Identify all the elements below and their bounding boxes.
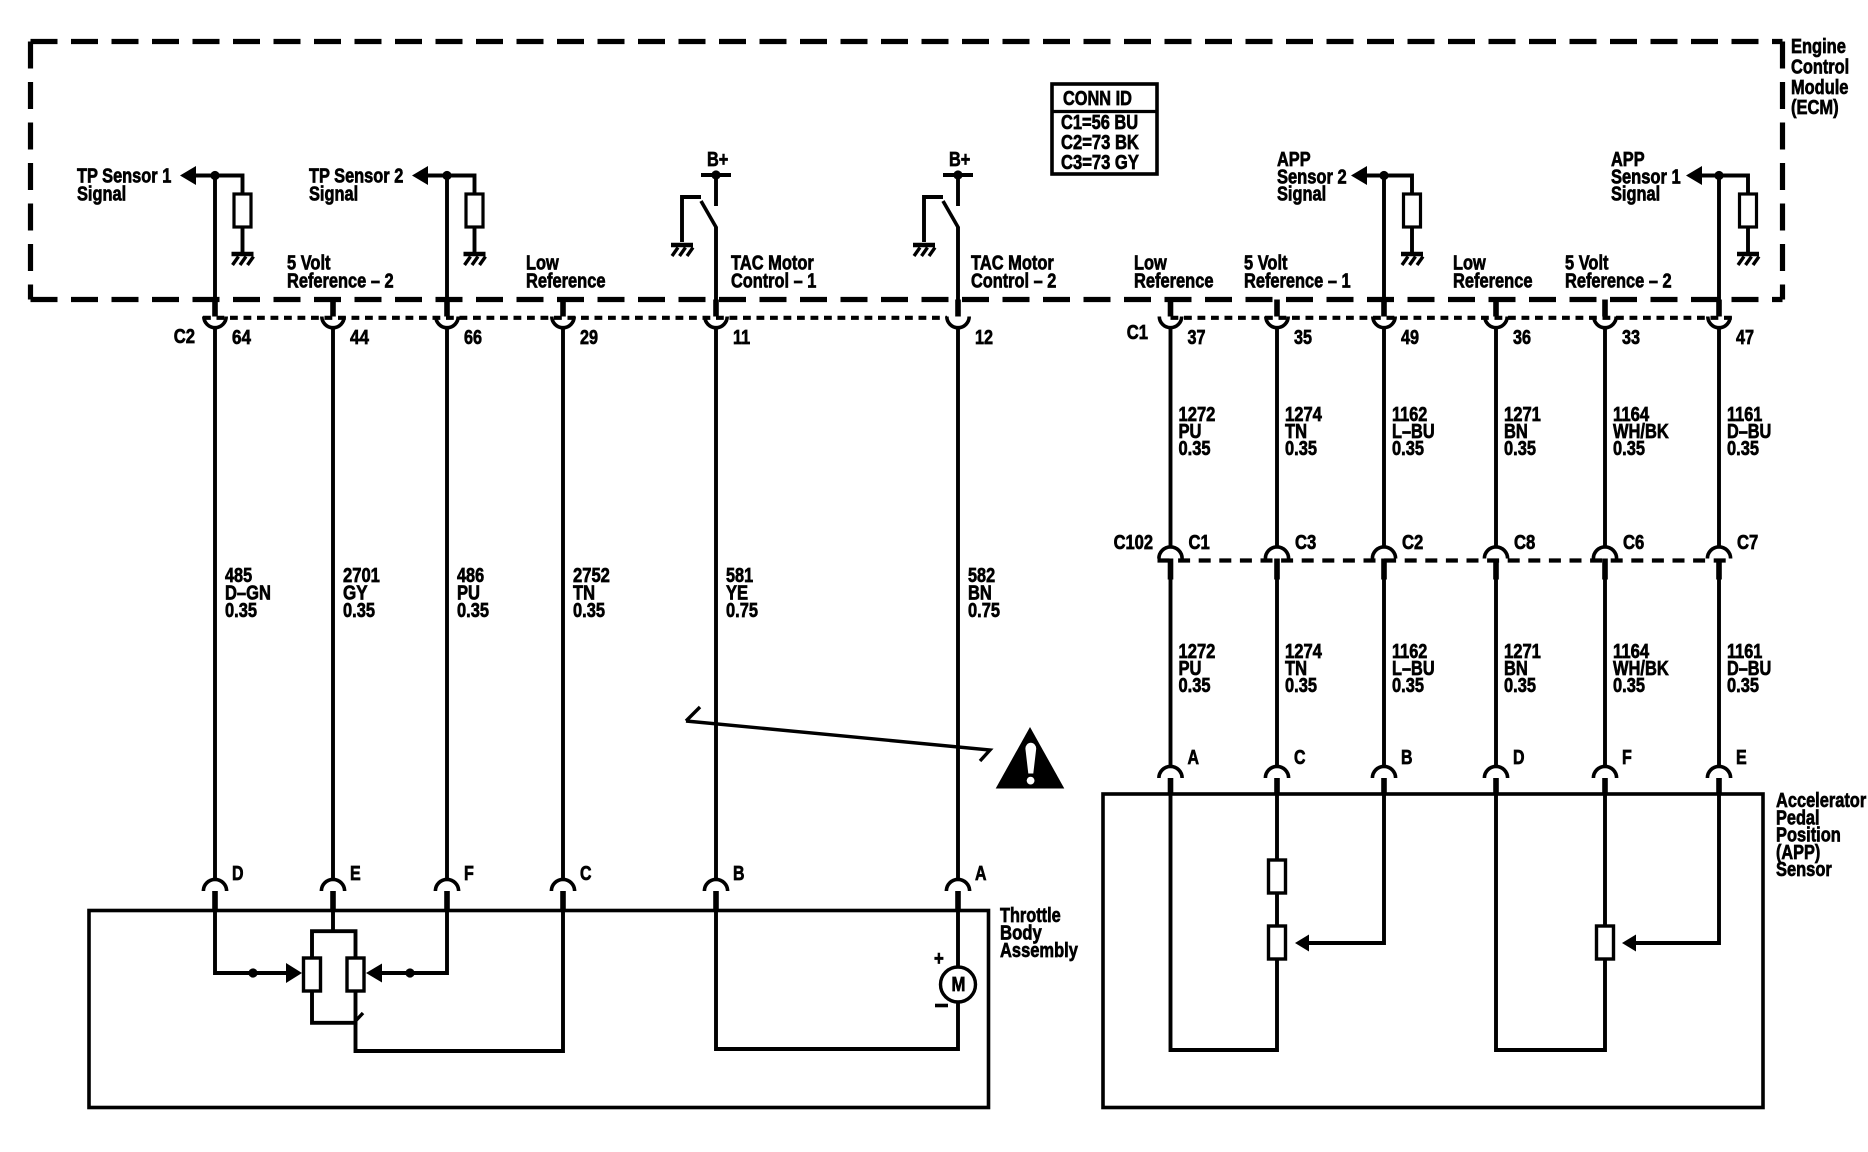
svg-text:37: 37 <box>1188 327 1206 349</box>
wire label lower 1161 D–BU 0.35 <box>1727 641 1771 697</box>
svg-text:49: 49 <box>1401 327 1419 349</box>
wire TP2 resistor to ground <box>473 227 477 253</box>
net label Low Reference (pin 37) <box>1134 253 1214 293</box>
ECM pin 44 terminal <box>322 300 370 350</box>
wire APP C lower segment <box>1275 959 1279 1052</box>
svg-text:+: + <box>934 948 944 970</box>
svg-text:0.35: 0.35 <box>1179 675 1211 697</box>
svg-text:B+: B+ <box>707 149 728 171</box>
wire label upper 1271 BN 0.35 <box>1504 404 1541 460</box>
throttle body terminal D <box>203 863 243 911</box>
wire label upper 1164 WH/BK 0.35 <box>1613 404 1669 460</box>
svg-text:0.35: 0.35 <box>1392 438 1424 460</box>
B+ terminal TAC1 <box>701 170 731 206</box>
svg-text:0.35: 0.35 <box>573 600 605 622</box>
wire 2701 GY (pin to throttle body E) <box>331 328 335 880</box>
Engine Control Module (ECM) enclosure box <box>31 42 1783 300</box>
motor plus label <box>934 948 944 970</box>
wire 1162 L–BU (C102 to APP sensor B) <box>1382 579 1386 767</box>
pot resistive element 1 <box>304 958 321 991</box>
svg-text:Reference – 2: Reference – 2 <box>1565 271 1672 293</box>
svg-text:(ECM): (ECM) <box>1791 97 1839 119</box>
svg-text:0.35: 0.35 <box>343 600 375 622</box>
ECM pin 11 terminal <box>705 300 750 350</box>
wire 1161 D–BU (C102 to APP sensor E) <box>1717 579 1721 767</box>
wire APP1 arrow to resistor branch <box>1700 176 1748 196</box>
svg-text:Reference: Reference <box>526 271 606 293</box>
ECM pin 64 terminal <box>204 300 252 350</box>
junction TP2 <box>442 171 451 180</box>
wire APP2 junction down to pin 49 <box>1382 176 1386 302</box>
wire 1161 D–BU (ECM to C102 C7) <box>1717 328 1721 547</box>
svg-text:35: 35 <box>1294 327 1312 349</box>
svg-text:Signal: Signal <box>1611 184 1660 206</box>
B+ label TAC2 <box>949 149 970 171</box>
svg-text:Reference – 2: Reference – 2 <box>287 271 394 293</box>
wire TP2 junction down to pin 66 <box>445 176 449 302</box>
CONN ID table <box>1052 84 1157 174</box>
Accelerator Pedal Position (APP) Sensor box <box>1103 794 1763 1108</box>
svg-text:C: C <box>1294 747 1306 769</box>
APP wiper arrow 2 <box>1622 935 1636 952</box>
motor M <box>941 967 976 1002</box>
resistor APP2 pull-up <box>1404 194 1421 227</box>
svg-text:D: D <box>1513 747 1525 769</box>
svg-text:12: 12 <box>975 327 993 349</box>
svg-text:47: 47 <box>1736 327 1754 349</box>
connector C1 label <box>1127 322 1148 344</box>
svg-text:C8: C8 <box>1514 532 1535 554</box>
C102 terminal C6 <box>1593 532 1644 580</box>
svg-text:64: 64 <box>232 327 252 349</box>
B+ label TAC1 <box>707 149 728 171</box>
wire 1271 BN (C102 to APP sensor D) <box>1494 579 1498 767</box>
svg-text:B: B <box>1401 747 1413 769</box>
svg-text:36: 36 <box>1513 327 1531 349</box>
net label Low Reference (pin 29) <box>526 253 606 293</box>
svg-text:0.75: 0.75 <box>726 600 758 622</box>
junction TP1 <box>210 171 219 180</box>
junction APP2 <box>1379 171 1388 180</box>
switch TAC1 ground-side wire <box>682 197 701 242</box>
switch TAC2 blade <box>943 201 959 228</box>
ground TP2 <box>464 254 486 265</box>
wire TP1 arrow to resistor branch <box>194 176 243 196</box>
net label TAC Motor Control - 1 (pin 11) <box>731 253 816 293</box>
svg-text:B: B <box>733 863 745 885</box>
svg-text:0.35: 0.35 <box>1392 675 1424 697</box>
svg-text:C102: C102 <box>1114 532 1153 554</box>
wire label lower 1271 BN 0.35 <box>1504 641 1541 697</box>
wire APP B to wiper arrow 1 <box>1309 794 1384 943</box>
ground TP1 <box>232 254 254 265</box>
svg-text:Signal: Signal <box>1277 184 1326 206</box>
svg-text:C3: C3 <box>1295 532 1316 554</box>
wire label lower 1164 WH/BK 0.35 <box>1613 641 1669 697</box>
junction throttle F wiper <box>405 968 414 977</box>
wire TP1 resistor to ground <box>241 227 245 253</box>
wire 486 PU (pin to throttle body F) <box>445 328 449 880</box>
svg-text:Engine: Engine <box>1791 36 1846 58</box>
wire label 582 BN 0.75 <box>968 565 1000 622</box>
resistor TP2 pull-up <box>466 194 483 227</box>
ground APP1 <box>1737 254 1759 265</box>
ECM connector dotted line (left segment) <box>203 316 947 320</box>
warning triangle symbol <box>996 727 1065 789</box>
switch TAC2 ground-side wire <box>924 197 943 242</box>
wire 1164 WH/BK (ECM to C102 C6) <box>1603 328 1607 547</box>
net label 5 Volt Reference - 1 (pin 35) <box>1244 253 1351 293</box>
svg-text:Control: Control <box>1791 56 1849 78</box>
ECM pin 29 terminal <box>552 300 598 350</box>
wire TP1 junction down to pin 64 <box>213 176 217 302</box>
wire 1164 WH/BK (C102 to APP sensor F) <box>1603 579 1607 767</box>
junction throttle D wiper <box>248 968 257 977</box>
wire 581 YE (pin to throttle body B) <box>714 328 718 880</box>
connector C2 label <box>174 326 195 348</box>
wire throttle F to wiper arrow <box>377 911 447 974</box>
wiper arrow TP1 <box>286 963 302 983</box>
wire throttle A to motor plus <box>956 911 960 968</box>
pot bottom bar <box>312 991 356 1023</box>
svg-text:C6: C6 <box>1623 532 1644 554</box>
net label 5 Volt Reference - 2 (pin 33) <box>1565 253 1672 293</box>
wire throttle D to wiper arrow <box>215 911 290 974</box>
APP Sensor 2 Signal label <box>1277 149 1347 206</box>
svg-text:Control – 2: Control – 2 <box>971 271 1056 293</box>
wire 2752 TN (pin to throttle body C) <box>561 328 565 880</box>
wire TP2 arrow to resistor branch <box>426 176 475 196</box>
svg-text:0.35: 0.35 <box>457 600 489 622</box>
wire 485 D–GN (pin to throttle body D) <box>213 328 217 880</box>
wire TAC1 to pin 11 <box>714 227 718 302</box>
APP Sensor 1 Signal label <box>1611 149 1681 206</box>
svg-text:C2: C2 <box>174 326 195 348</box>
svg-text:0.35: 0.35 <box>1179 438 1211 460</box>
resistor APP1 pull-up <box>1740 194 1757 227</box>
APP Sensor 2 signal arrow <box>1351 166 1367 185</box>
svg-text:0.35: 0.35 <box>1285 675 1317 697</box>
svg-text:Assembly: Assembly <box>1000 940 1079 962</box>
svg-text:E: E <box>350 863 361 885</box>
C102 terminal C2 <box>1372 532 1423 580</box>
throttle body terminal A <box>946 863 986 911</box>
net label TAC Motor Control - 2 (pin 12) <box>971 253 1056 293</box>
svg-text:0.35: 0.35 <box>1613 675 1645 697</box>
wire pot bottom to throttle C <box>356 911 564 1052</box>
APP pot resistor 2 <box>1597 926 1614 959</box>
ECM pin 47 terminal <box>1708 300 1754 350</box>
wire APP2 arrow to resistor branch <box>1365 176 1412 196</box>
svg-text:0.75: 0.75 <box>968 600 1000 622</box>
APP sensor terminal E <box>1707 747 1746 794</box>
ECM name label <box>1791 36 1849 119</box>
APP sensor terminal C <box>1265 747 1305 794</box>
wire label 2701 GY 0.35 <box>343 565 380 622</box>
wire label upper 1274 TN 0.35 <box>1285 404 1323 460</box>
wire TAC2 to pin 12 <box>956 227 960 302</box>
wire 1274 TN (ECM to C102 C3) <box>1275 328 1279 547</box>
svg-text:E: E <box>1736 747 1747 769</box>
wire label upper 1161 D–BU 0.35 <box>1727 404 1771 460</box>
wire label lower 1162 L–BU 0.35 <box>1392 641 1435 697</box>
svg-text:C: C <box>580 863 592 885</box>
net label 5 Volt Reference - 2 (pin 44) <box>287 253 394 293</box>
ECM pin 12 terminal <box>947 300 993 350</box>
ground TAC1 <box>671 245 693 256</box>
wire label 486 PU 0.35 <box>457 565 489 622</box>
C102 terminal C3 <box>1265 532 1316 580</box>
wire label lower 1272 PU 0.35 <box>1179 641 1216 697</box>
resistor TP1 pull-up <box>234 194 251 227</box>
Throttle Body Assembly label <box>1000 905 1079 962</box>
svg-text:0.35: 0.35 <box>1285 438 1317 460</box>
wire 1272 PU (C102 to APP sensor A) <box>1169 579 1173 767</box>
wire APP C mid segment <box>1275 893 1279 927</box>
svg-text:Module: Module <box>1791 77 1848 99</box>
svg-text:C2=73 BK: C2=73 BK <box>1061 132 1139 154</box>
svg-text:0.35: 0.35 <box>1504 438 1536 460</box>
svg-text:Control – 1: Control – 1 <box>731 271 816 293</box>
C102 terminal C7 <box>1707 532 1758 580</box>
APP sensor terminal B <box>1372 747 1412 794</box>
wire APP A to low-ref bus <box>1171 794 1278 1050</box>
net label Low Reference (pin 36) <box>1453 253 1533 293</box>
svg-text:C7: C7 <box>1737 532 1758 554</box>
svg-text:66: 66 <box>464 327 482 349</box>
svg-text:Reference: Reference <box>1134 271 1214 293</box>
Throttle Body Assembly box <box>89 911 989 1108</box>
svg-text:M: M <box>952 974 966 996</box>
warning leader arrow <box>686 707 990 761</box>
APP Sensor 1 signal arrow <box>1686 166 1702 185</box>
throttle body terminal E <box>321 863 360 911</box>
APP sensor terminal F <box>1593 747 1631 794</box>
svg-text:C2: C2 <box>1402 532 1423 554</box>
wire APP1 resistor to ground <box>1746 227 1750 253</box>
TP Sensor 1 Signal label <box>77 165 171 205</box>
svg-text:0.35: 0.35 <box>1727 675 1759 697</box>
wire APP E to wiper arrow 2 <box>1636 794 1719 943</box>
svg-text:11: 11 <box>733 327 750 349</box>
wire 1162 L–BU (ECM to C102 C2) <box>1382 328 1386 547</box>
wire APP D to low-ref bus 2 <box>1496 794 1605 1050</box>
svg-text:F: F <box>464 863 474 885</box>
svg-text:44: 44 <box>350 327 370 349</box>
ECM pin 66 terminal <box>436 300 482 350</box>
pot resistive element 2 <box>347 958 364 991</box>
wiper arrow TP2 <box>366 964 382 983</box>
pot wiper tick <box>356 1013 364 1021</box>
svg-text:0.35: 0.35 <box>1727 438 1759 460</box>
wire label 2752 TN 0.35 <box>573 565 610 622</box>
svg-text:D: D <box>232 863 244 885</box>
svg-text:Sensor: Sensor <box>1776 859 1832 881</box>
junction APP1 <box>1714 171 1723 180</box>
wire APP C upper segment <box>1275 794 1279 861</box>
wire throttle B to motor minus <box>716 911 958 1050</box>
wire label 581 YE 0.75 <box>726 565 758 622</box>
svg-text:0.35: 0.35 <box>1613 438 1645 460</box>
svg-text:Reference: Reference <box>1453 271 1533 293</box>
ECM pin 36 terminal <box>1485 300 1531 350</box>
svg-text:C1=56 BU: C1=56 BU <box>1061 112 1138 134</box>
svg-text:Signal: Signal <box>77 184 126 206</box>
wire APP F upper segment <box>1603 794 1607 927</box>
wire APP2 resistor to ground <box>1410 227 1414 253</box>
svg-text:B+: B+ <box>949 149 970 171</box>
ground TAC2 <box>913 245 935 256</box>
connector C102 label <box>1114 532 1153 554</box>
APP sensor label <box>1776 790 1866 881</box>
svg-text:0.35: 0.35 <box>225 600 257 622</box>
svg-text:Signal: Signal <box>309 184 358 206</box>
svg-text:A: A <box>975 863 987 885</box>
wire label 485 D–GN 0.35 <box>225 565 271 622</box>
APP wiper arrow 1 <box>1295 935 1309 952</box>
APP pot resistor 1b <box>1269 926 1286 959</box>
switch TAC1 blade <box>701 201 717 228</box>
C102 dashed line <box>1158 558 1734 562</box>
svg-text:29: 29 <box>580 327 598 349</box>
ground APP2 <box>1401 254 1423 265</box>
throttle body terminal C <box>551 863 591 911</box>
svg-text:33: 33 <box>1622 327 1640 349</box>
wire throttle E to pot top <box>331 911 335 934</box>
svg-text:A: A <box>1188 747 1200 769</box>
wire label lower 1274 TN 0.35 <box>1285 641 1323 697</box>
ECM pin 35 terminal <box>1266 300 1312 350</box>
svg-text:0.35: 0.35 <box>1504 675 1536 697</box>
ECM pin 33 terminal <box>1594 300 1640 350</box>
wire APP F lower segment <box>1603 959 1607 1052</box>
ECM connector dotted line (right segment) <box>1171 316 1733 320</box>
ECM pin 49 terminal <box>1373 300 1419 350</box>
ECM pin 37 terminal <box>1159 300 1205 350</box>
TP Sensor 2 signal arrow <box>412 166 428 185</box>
C102 terminal C8 <box>1484 532 1535 580</box>
svg-text:CONN ID: CONN ID <box>1063 88 1132 110</box>
B+ terminal TAC2 <box>943 170 973 206</box>
TP Sensor 1 signal arrow <box>180 166 196 185</box>
wire label upper 1162 L–BU 0.35 <box>1392 404 1435 460</box>
svg-text:C3=73 GY: C3=73 GY <box>1061 152 1139 174</box>
svg-text:F: F <box>1622 747 1632 769</box>
wire 582 BN (pin to throttle body A) <box>956 328 960 880</box>
wire 1274 TN (C102 to APP sensor C) <box>1275 579 1279 767</box>
APP sensor terminal D <box>1484 747 1524 794</box>
TP Sensor 2 Signal label <box>309 165 403 205</box>
wire 1271 BN (ECM to C102 C8) <box>1494 328 1498 547</box>
throttle body terminal F <box>435 863 473 911</box>
wire 1272 PU (ECM to C102 C1) <box>1169 328 1173 547</box>
motor minus label <box>935 1004 948 1008</box>
APP pot resistor 1a <box>1269 860 1286 893</box>
svg-text:Reference – 1: Reference – 1 <box>1244 271 1351 293</box>
C102 terminal C1 <box>1159 532 1210 580</box>
wire APP1 junction down to pin 47 <box>1717 176 1721 302</box>
wire label upper 1272 PU 0.35 <box>1179 404 1216 460</box>
svg-text:C1: C1 <box>1127 322 1148 344</box>
svg-text:C1: C1 <box>1189 532 1210 554</box>
throttle body terminal B <box>704 863 744 911</box>
APP sensor terminal A <box>1159 747 1199 794</box>
pot top bar <box>312 931 356 958</box>
